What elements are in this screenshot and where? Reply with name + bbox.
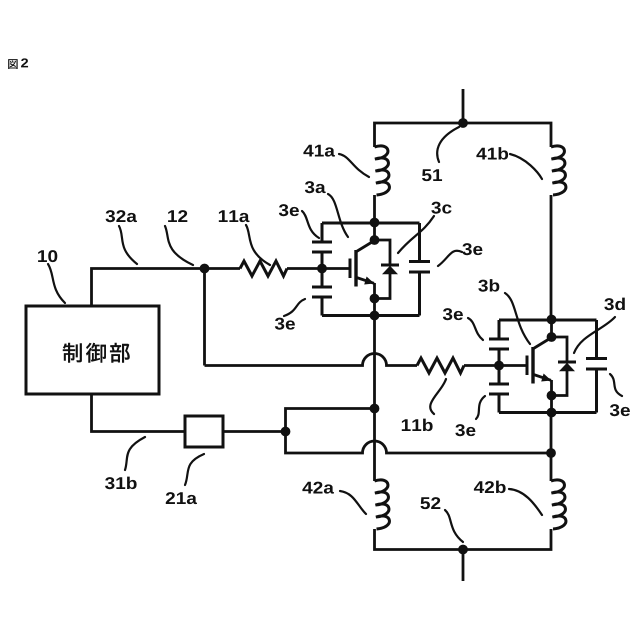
inductor 41a	[375, 146, 390, 195]
node on 3b emitter rail	[546, 448, 556, 458]
resistor 11a	[240, 261, 287, 276]
node 3b emitter junction	[547, 391, 557, 401]
transistor module 3b box outline	[499, 320, 597, 413]
wire branch down to emitter rail of 3b (with hop)	[286, 432, 552, 454]
figure caption 図2	[8, 58, 28, 69]
capacitor 3e collector-emitter snubber	[586, 359, 607, 370]
wire 32a from control unit to node 12	[92, 269, 205, 307]
wire from node 12 down	[203, 269, 206, 366]
node 3b box-bottom junction	[547, 408, 557, 418]
transistor 3b collector lead	[534, 338, 552, 349]
label 3b with leader	[478, 279, 499, 292]
node 3a gate junction	[317, 264, 327, 274]
transistor 3a emitter lead with arrow	[357, 278, 375, 284]
label 3c with leader	[431, 202, 451, 214]
control unit box 10 制御部	[26, 306, 159, 394]
label 31b with leader	[105, 477, 137, 490]
transistor 3a IGBT gate bar	[349, 259, 352, 279]
label 42b with leader	[474, 481, 506, 493]
label 3e with leader	[455, 424, 475, 436]
label 11a with leader	[219, 210, 250, 222]
wire bottom rail with 42a and 42b bottom leads	[375, 529, 552, 550]
node 52	[458, 545, 468, 555]
wire resistor 11b to gate 3b	[464, 364, 499, 367]
label 3e with leader	[610, 404, 630, 416]
node 3b gate junction	[494, 361, 504, 371]
label 32a with leader	[106, 210, 137, 222]
wire 3a emitter node to box bottom	[373, 299, 376, 316]
wire bottom stub below node 52	[462, 550, 465, 582]
wire resistor 11a to gate 3a	[287, 267, 322, 270]
node 3a box-top junction	[370, 218, 380, 228]
label 11b with leader	[402, 419, 433, 431]
transistor 3a IGBT body bar	[354, 250, 357, 287]
wire node 12 to resistor 11a	[205, 267, 241, 270]
wire 41a bottom lead	[373, 195, 376, 223]
transistor 3a gate lead	[322, 267, 350, 270]
wire 31b from control unit to box 21a	[92, 394, 186, 432]
label 3e with leader	[443, 308, 463, 320]
wire 3a collector node to box top	[373, 223, 376, 241]
transistor 3b IGBT gate bar	[526, 356, 529, 376]
text 制御部	[63, 343, 130, 363]
diode 3c antiparallel	[375, 240, 391, 299]
wire box 21a to junction	[223, 430, 286, 433]
inductor 42a	[375, 480, 390, 529]
node 3a collector junction	[370, 235, 380, 245]
label 10 with leader	[38, 250, 57, 262]
inductor 42b	[551, 480, 566, 529]
node 3a box-bottom junction	[370, 311, 380, 321]
label 42a with leader	[302, 482, 334, 494]
resistor 11b	[417, 358, 464, 373]
capacitor 3b gate-side lower 3e	[489, 384, 509, 394]
node 51	[458, 118, 468, 128]
label 3a with leader	[305, 181, 326, 193]
label 12 with leader	[168, 210, 187, 222]
transistor 3a collector lead	[357, 241, 375, 252]
node 3b collector junction	[547, 332, 557, 342]
label 51 with leader	[422, 169, 442, 181]
transistor 3b emitter lead with arrow	[534, 375, 552, 381]
wire top stub above node 51	[462, 89, 465, 123]
wire 3b emitter rail down	[550, 413, 553, 482]
capacitor 3e collector-emitter snubber	[409, 262, 430, 273]
node 3a emitter junction	[370, 294, 380, 304]
capacitor 3b gate-side upper 3e	[489, 339, 509, 349]
node at 21a branch	[281, 427, 291, 437]
wire 3a emitter rail down	[373, 316, 376, 482]
wire top rail with 41a and 41b top leads	[375, 123, 552, 147]
label 21a with leader	[166, 492, 197, 504]
label 3e with leader	[275, 318, 295, 330]
transistor 3b gate lead	[499, 364, 527, 367]
wire lower gate run to resistor 11b	[205, 354, 418, 366]
label 3e with leader	[279, 204, 299, 216]
label 52 with leader	[420, 497, 440, 509]
label 41a with leader	[303, 145, 335, 157]
node 3b box-top junction	[547, 315, 557, 325]
inductor 41b	[551, 146, 566, 195]
wire 3b emitter node to box bottom	[550, 396, 553, 413]
diode 3d antiparallel	[552, 337, 568, 396]
node 12	[200, 264, 210, 274]
transistor 3b IGBT body bar	[531, 347, 534, 384]
wire 3b collector node to box top	[550, 320, 553, 338]
wire branch up to emitter rail of 3a	[286, 409, 375, 432]
capacitor 3a gate-side lower 3e	[312, 287, 332, 297]
transistor module 3a box outline	[322, 223, 420, 316]
label 3d with leader	[604, 298, 625, 311]
wire 41b lead down to module 3b	[550, 195, 553, 320]
node on 3a emitter rail	[370, 404, 380, 414]
box 21a	[185, 416, 223, 447]
label 3e with leader	[462, 243, 482, 255]
capacitor 3a gate-side upper 3e	[312, 242, 332, 252]
label 41b with leader	[476, 147, 508, 159]
